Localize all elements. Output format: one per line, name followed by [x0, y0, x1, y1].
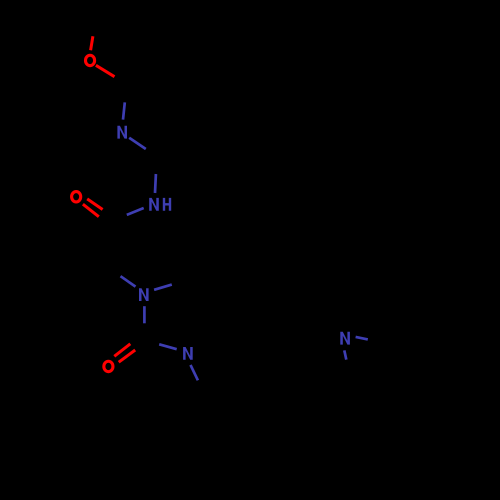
double bond C6=O3 line 1 (red half near O3) — [114, 344, 130, 357]
bond C2-N2 (blue half near N2) — [154, 174, 158, 193]
bond O1-C (red half near O1) — [96, 65, 115, 76]
bond N2-C3 (blue half near N2) — [127, 208, 144, 215]
bond CH3-O1 (red half near O1) — [91, 36, 93, 50]
atom O1 (methoxy oxygen) — [86, 55, 95, 65]
bond N3-C6 (blue half near N3) — [143, 306, 146, 323]
bond N4-C7 (blue half near N4) — [191, 365, 198, 380]
bond N5-C9 (blue half near N5, downward) — [344, 350, 346, 359]
bond N1-C2 (blue half near N1) — [129, 138, 146, 149]
atom N5 (ring nitrogen, lower right) — [340, 332, 350, 345]
bond C6-N4 (blue half near N4) — [159, 344, 177, 349]
atom N4 — [183, 347, 193, 360]
bond C-N1 (blue half near N1) — [123, 102, 125, 119]
atom N3 (urea nitrogen) — [139, 288, 149, 301]
atom N2 (amide N of NH label) — [149, 198, 159, 211]
bond N5-C8 (blue half near N5, to the right) — [356, 337, 368, 340]
double bond C3=O2 line 2 (red half near O2) — [83, 204, 99, 217]
double bond C3=O2 line 1 (red half near O2) — [87, 199, 102, 210]
bond N3-C5 (blue half near N3) — [154, 285, 172, 290]
double bond C6=O3 line 2 (red half near O3) — [119, 350, 136, 362]
atom N2 H of NH label — [163, 198, 171, 211]
bond C4-N3 (blue half near N3) — [121, 276, 136, 286]
atom O2 (amide carbonyl oxygen) — [72, 192, 81, 202]
atom O3 (urea carbonyl oxygen) — [104, 361, 113, 371]
atom N1 — [117, 126, 127, 139]
